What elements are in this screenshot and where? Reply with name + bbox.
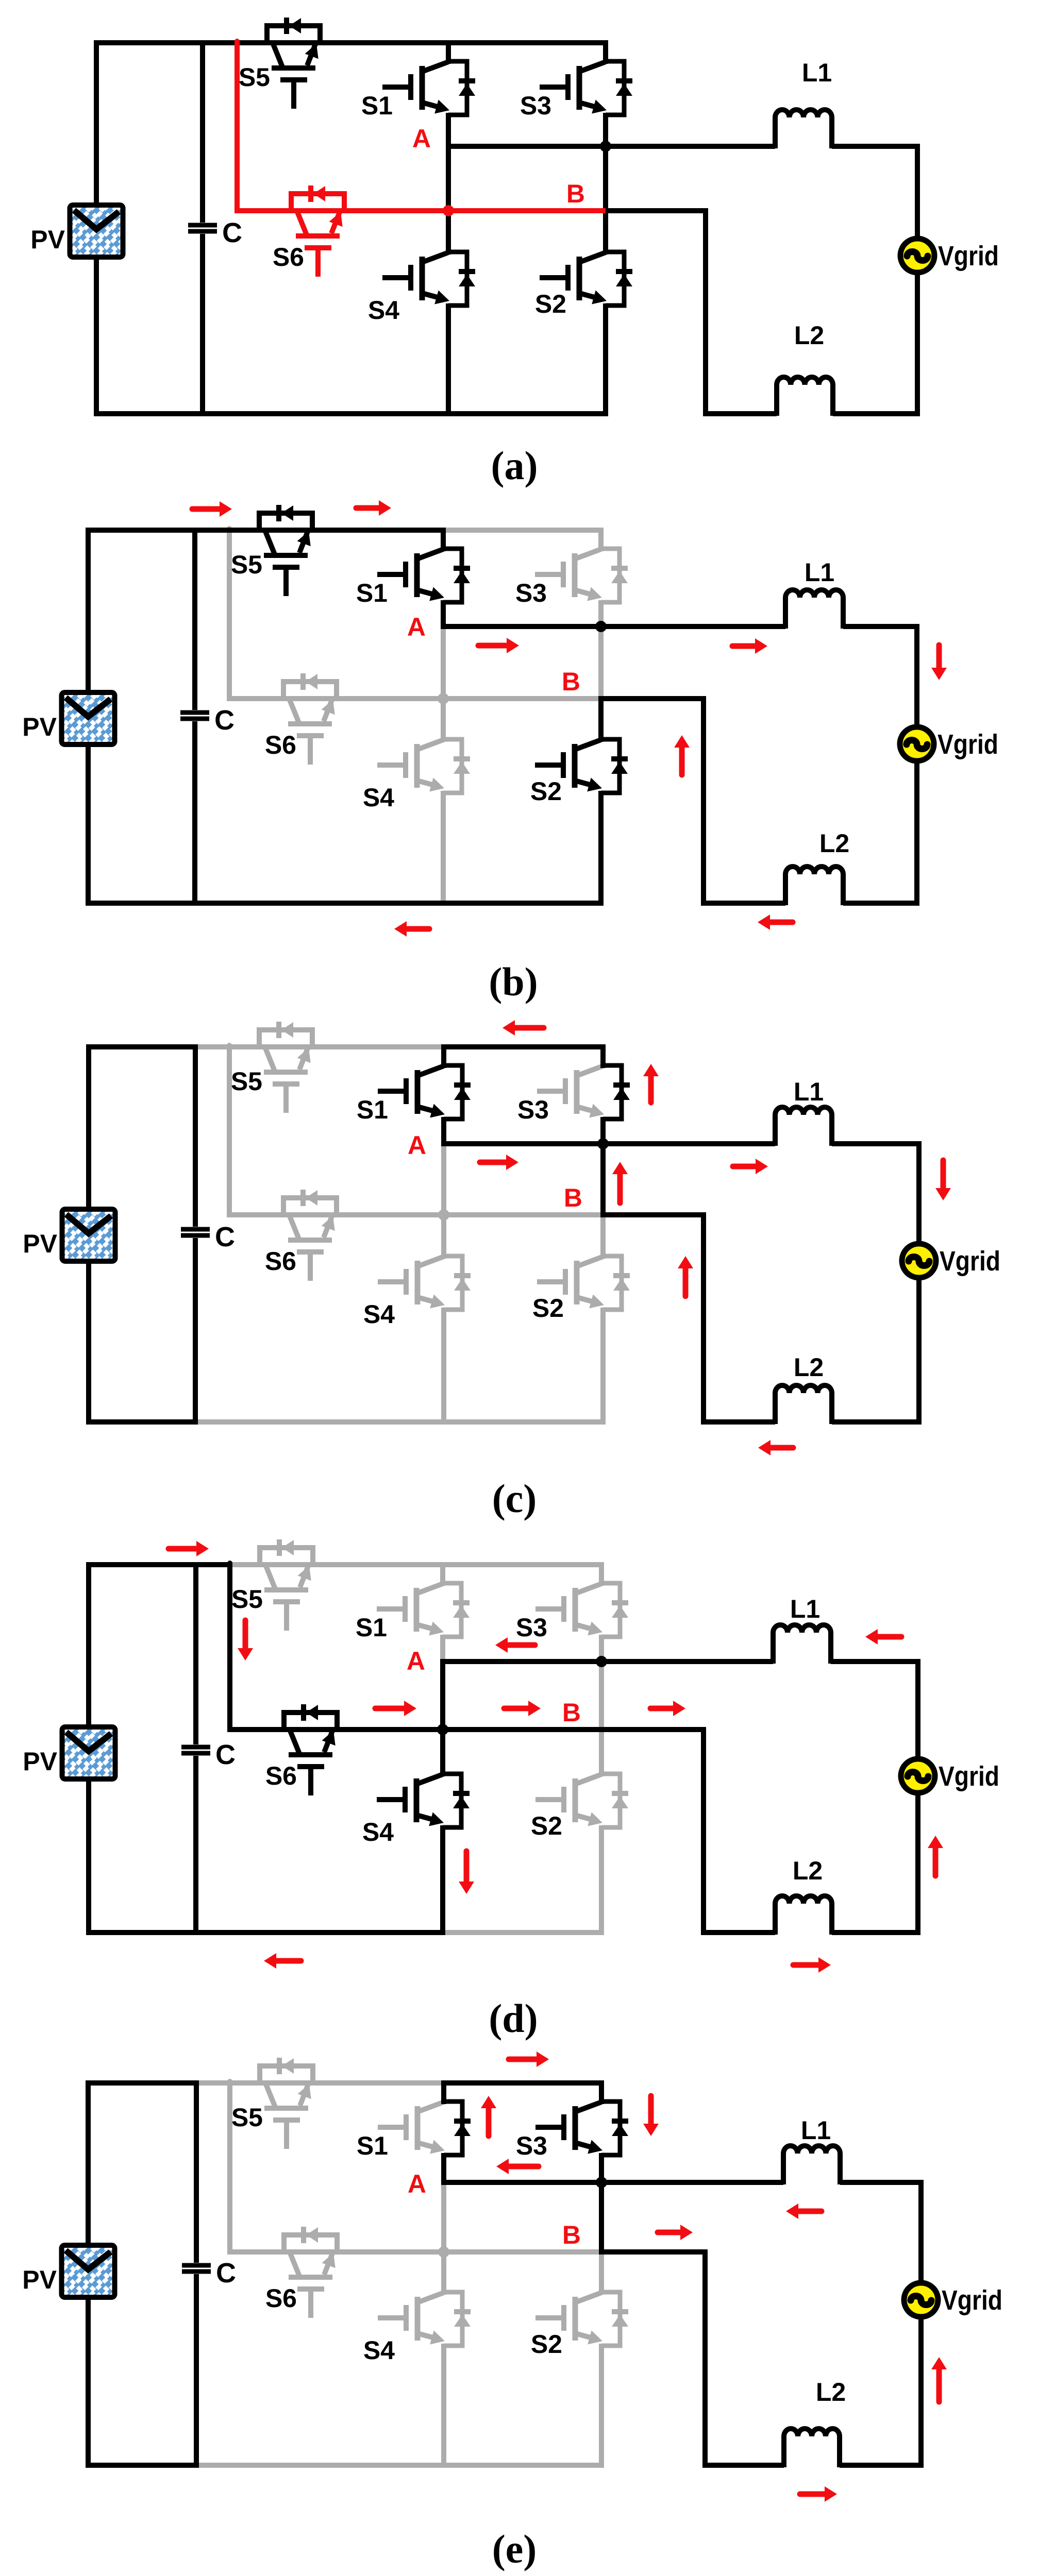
transistor S1 antiparallel diode (d) — [443, 1583, 461, 1637]
solar panel PV (e) — [64, 2247, 113, 2295]
wire: leg2 node B to S2 (b) — [598, 696, 604, 742]
wire: leg2 rail to S3 (d) — [599, 1562, 604, 1586]
current arrow: up into Vgrid (e) — [936, 2367, 942, 2402]
transistor S5 IGBT body (b) — [265, 530, 275, 554]
svg-text:S2: S2 — [531, 1811, 562, 1840]
transistor S3 antiparallel diode (a) — [606, 61, 624, 115]
wire: top rail C to S6 tap (c) — [193, 1044, 232, 1049]
wire: leg1 node A to S4 (a) — [446, 144, 451, 255]
svg-text:(e): (e) — [492, 2527, 537, 2571]
wire: leg1 rail to S1 (b) — [441, 528, 446, 551]
junction S6 output on leg1 (e) — [438, 2246, 449, 2258]
svg-text:L2: L2 — [819, 829, 849, 858]
transistor S4 IGBT body (b) — [417, 740, 443, 750]
wire: node A to L1 (c) — [441, 1141, 775, 1146]
svg-text:PV: PV — [30, 225, 65, 254]
current arrow: node A output (b) — [478, 643, 509, 649]
transistor S2 antiparallel diode (b) — [601, 739, 620, 793]
junction node A on leg2 (b) — [595, 621, 607, 632]
transistor S1 IGBT body (c) — [417, 1066, 444, 1076]
transistor S5 IGBT body (e) — [265, 2083, 275, 2107]
wire: leg2 S3 to node A junction (c) — [600, 1117, 606, 1146]
junction S6 output on leg1 (c) — [438, 1209, 449, 1221]
current arrow: out of L2 (c) — [768, 1445, 793, 1451]
transistor S6 IGBT body (c) — [289, 1215, 299, 1239]
wire: bottom rail leg1 to leg2 (b) — [441, 901, 604, 906]
svg-text:S4: S4 — [363, 2336, 395, 2365]
wire: S6 rail tap to leg1 (c) — [227, 1212, 444, 1217]
wire: bottom rail PV to C (b) — [86, 901, 197, 906]
wire: bottom rail C to leg1 (e) — [194, 2463, 446, 2468]
transistor S5 antiparallel diode (a) — [267, 26, 320, 43]
wire: freewheel link leg1 to leg2 (a) — [448, 208, 606, 213]
wire: PV positive leg (c) — [86, 1044, 91, 1425]
transistor S1 IGBT body (a) — [422, 62, 448, 72]
transistor S2 antiparallel diode (d) — [601, 1774, 620, 1827]
transistor S5 IGBT body (d) — [265, 1565, 275, 1589]
transistor S1 IGBT body (d) — [416, 1584, 443, 1594]
current arrow: out of L2 (b) — [768, 920, 793, 925]
solar panel PV (b) — [64, 694, 113, 742]
wire: node B output leg2 to riser (b) — [598, 696, 706, 701]
svg-text:B: B — [562, 2221, 581, 2249]
current arrow: into L2 (e) — [800, 2492, 827, 2497]
transistor S6 antiparallel diode (c) — [283, 1198, 337, 1215]
current arrow: into S6 tap (d) — [169, 1546, 198, 1552]
wire: S6 tap vertical (b) — [227, 529, 232, 699]
wire: leg1 S1 to node A (c) — [441, 1117, 446, 1146]
current arrow: bottom rail return (d) — [274, 1958, 301, 1964]
inductor L1 (a) — [775, 110, 832, 148]
svg-text:(c): (c) — [492, 1476, 537, 1521]
transistor S5 IGBT body (c) — [265, 1047, 275, 1071]
transistor S1 IGBT body (e) — [417, 2102, 444, 2112]
wire: PV positive leg (d) — [86, 1562, 91, 1935]
wire: leg2 node B to S2 (d) — [599, 1727, 604, 1776]
svg-text:C: C — [215, 1739, 236, 1770]
transistor S5 antiparallel diode (c) — [259, 1030, 312, 1047]
current arrow: out of S6 (d) — [375, 1706, 406, 1711]
AC source Vgrid (d) — [901, 1759, 935, 1793]
svg-text:Vgrid: Vgrid — [937, 729, 998, 760]
wire: top rail PV to C (e) — [86, 2080, 196, 2086]
wire: top rail through S5 to leg1 (d) — [227, 1562, 445, 1567]
svg-text:A: A — [412, 124, 431, 153]
solar panel PV (c) — [64, 1211, 113, 1259]
inductor L2 (e) — [784, 2429, 840, 2467]
junction node A on leg2 (c) — [597, 1138, 609, 1149]
wire: leg2 node B to S2 (a) — [603, 208, 608, 255]
current arrow: up node B riser (c) — [683, 1266, 689, 1296]
svg-text:S6: S6 — [265, 731, 296, 759]
AC source Vgrid (c) — [902, 1244, 936, 1278]
current arrow: into S5 (b) — [192, 506, 222, 512]
current arrow: top freewheel right (e) — [509, 2057, 539, 2062]
wire: leg2 rail to S3 (c) — [600, 1044, 606, 1068]
inductor L2 (b) — [785, 867, 843, 905]
svg-text:S1: S1 — [357, 2131, 388, 2160]
transistor S3 antiparallel diode (c) — [603, 1065, 622, 1119]
wire: top rail PV to C (d) — [86, 1562, 196, 1567]
current arrow: up through S1 diode (e) — [486, 2106, 492, 2136]
wire: leg1 S4 to bottom rail (d) — [440, 1825, 445, 1935]
wire: top rail through S5 to leg1 (a) — [235, 40, 451, 45]
wire: node A to L1 (b) — [441, 624, 785, 629]
svg-text:S3: S3 — [516, 2131, 547, 2160]
transistor S4 antiparallel diode (b) — [443, 739, 462, 793]
transistor S3 IGBT body (c) — [577, 1066, 603, 1076]
current arrow: up leg2 to node A (c) — [617, 1172, 623, 1203]
transistor S3 antiparallel diode (e) — [601, 2102, 620, 2155]
wire: top rail PV to C (b) — [86, 528, 195, 533]
svg-text:S1: S1 — [356, 1613, 387, 1642]
wire: S6 rail tap to leg1 (b) — [227, 696, 443, 701]
current arrow: down into Vgrid (b) — [936, 645, 942, 670]
transistor S1 antiparallel diode (b) — [443, 549, 462, 602]
transistor S5 antiparallel diode (b) — [259, 513, 312, 530]
wire: leg1 S4 to bottom rail (e) — [441, 2344, 446, 2468]
transistor S4 IGBT body (a) — [422, 252, 448, 262]
wire: bottom rail leg1 to leg2 (e) — [441, 2463, 604, 2468]
svg-text:B: B — [562, 1698, 581, 1727]
wire: node B output leg2 to riser (d) — [599, 1727, 706, 1732]
svg-text:S2: S2 — [530, 777, 562, 806]
wire: leg1 rail to S1 (e) — [441, 2080, 446, 2104]
svg-text:S5: S5 — [231, 1067, 262, 1096]
transistor S1 antiparallel diode (e) — [444, 2102, 462, 2155]
wire: bottom rail C to leg1 (b) — [192, 901, 446, 906]
svg-text:C: C — [216, 2258, 236, 2289]
svg-text:S1: S1 — [356, 579, 388, 607]
wire: S6 tap vertical (a) — [235, 41, 240, 211]
svg-text:B: B — [562, 667, 580, 696]
wire: freewheel link leg1 to leg2 (c) — [444, 1212, 603, 1217]
svg-text:S3: S3 — [520, 91, 551, 120]
wire: leg1 node A to S4 (c) — [441, 1141, 446, 1259]
wire: bottom rail leg1 to leg2 (c) — [441, 1419, 606, 1425]
current arrow: down through S4 (d) — [464, 1851, 470, 1884]
junction node A on leg2 (a) — [600, 141, 611, 152]
wire: leg2 S3 to node A junction (d) — [599, 1635, 604, 1664]
transistor S2 antiparallel diode (e) — [601, 2292, 620, 2346]
junction S6 output on leg1 (b) — [438, 693, 449, 704]
wire: leg1 S1 to node A (b) — [441, 600, 446, 629]
svg-text:C: C — [222, 217, 242, 248]
current arrow: down S6 tap (d) — [243, 1620, 248, 1650]
transistor S3 IGBT body (e) — [575, 2102, 601, 2112]
svg-text:A: A — [408, 1131, 426, 1160]
wire: bottom rail C to leg1 (d) — [193, 1930, 445, 1935]
current arrow: top freewheel left (c) — [513, 1025, 544, 1031]
AC source Vgrid (b) — [900, 727, 934, 761]
current arrow: into L1 (c) — [733, 1164, 758, 1170]
svg-text:S4: S4 — [362, 1818, 394, 1846]
svg-text:L2: L2 — [794, 321, 824, 350]
wire: bottom rail leg1 to leg2 (d) — [440, 1930, 604, 1935]
inductor L2 (d) — [775, 1896, 832, 1935]
wire: top rail PV to C (a) — [94, 40, 203, 45]
current arrow: into L2 (d) — [793, 1962, 821, 1968]
svg-text:(b): (b) — [489, 959, 538, 1004]
wire: top rail C to S6 tap (a) — [200, 40, 240, 45]
current arrow: bottom rail return (b) — [405, 926, 429, 932]
junction node A on leg2 (e) — [596, 2177, 607, 2188]
svg-text:S6: S6 — [265, 1761, 297, 1790]
current arrow: node B output (d) — [650, 1706, 675, 1711]
wire: top rail PV to C (c) — [86, 1044, 195, 1049]
svg-text:C: C — [214, 705, 235, 736]
svg-text:L1: L1 — [794, 1077, 824, 1106]
transistor S6 IGBT body (d) — [290, 1730, 299, 1754]
wire: node B output leg2 to riser (a) — [603, 208, 708, 213]
wire: Vgrid to L2 (c) — [832, 1278, 919, 1422]
wire: leg1 rail to S1 (d) — [440, 1562, 445, 1586]
wire: top rail C to S6 tap (d) — [193, 1562, 232, 1567]
svg-text:S5: S5 — [239, 63, 270, 92]
svg-text:S3: S3 — [515, 579, 547, 607]
transistor S6 IGBT body (e) — [290, 2252, 299, 2276]
svg-text:L2: L2 — [793, 1856, 823, 1885]
transistor S1 IGBT body (b) — [417, 549, 443, 559]
transistor S4 antiparallel diode (a) — [448, 252, 467, 306]
transistor S5 antiparallel diode (e) — [260, 2066, 313, 2083]
wire: Vgrid to L2 (e) — [840, 2317, 921, 2465]
wire: leg2 node A to node B (a) — [603, 144, 608, 213]
svg-text:L1: L1 — [802, 58, 832, 87]
wire: top rail leg1 to leg2 (a) — [446, 40, 608, 45]
wire: leg1 node A to S4 (e) — [441, 2180, 446, 2295]
transistor S2 IGBT body (a) — [579, 252, 606, 262]
svg-text:Vgrid: Vgrid — [940, 1246, 1000, 1277]
current arrow: into L1 (b) — [732, 643, 757, 649]
transistor S4 IGBT body (c) — [417, 1257, 444, 1266]
wire: bottom rail PV to C (a) — [94, 411, 205, 416]
wire: freewheel link leg1 to leg2 (d) — [443, 1727, 601, 1732]
wire: leg1 S4 to bottom rail (c) — [441, 1308, 446, 1425]
wire: leg1 S1 to node A (a) — [446, 113, 451, 149]
inductor L2 (c) — [775, 1385, 832, 1424]
svg-text:S3: S3 — [517, 1095, 549, 1124]
svg-text:(d): (d) — [489, 1996, 538, 2041]
wire: L2 to node B riser (b) — [704, 696, 785, 903]
svg-text:L2: L2 — [816, 2378, 846, 2406]
svg-text:A: A — [407, 1647, 425, 1675]
transistor S2 IGBT body (b) — [575, 740, 601, 750]
inductor L1 (e) — [783, 2146, 840, 2184]
wire: leg2 S2 to bottom rail (a) — [603, 303, 608, 416]
wire: leg2 S2 to bottom rail (d) — [599, 1825, 604, 1935]
transistor S5 antiparallel diode (d) — [260, 1548, 313, 1565]
svg-text:S4: S4 — [368, 296, 399, 325]
wire: bottom rail PV to C (d) — [86, 1930, 198, 1935]
wire: node A to L1 (a) — [446, 144, 775, 149]
transistor S3 antiparallel diode (d) — [601, 1583, 620, 1637]
solar panel PV (d) — [64, 1729, 113, 1777]
svg-text:PV: PV — [23, 1747, 57, 1776]
wire: leg1 S1 to node A (e) — [441, 2153, 446, 2185]
wire: freewheel link leg1 to leg2 (b) — [443, 696, 601, 701]
AC source Vgrid (e) — [904, 2283, 938, 2317]
wire: leg2 rail to S3 (e) — [599, 2080, 604, 2104]
wire: L1 to Vgrid (b) — [843, 626, 917, 727]
wire: node A to L1 (d) — [440, 1659, 773, 1664]
svg-text:S4: S4 — [363, 783, 394, 812]
svg-text:S5: S5 — [231, 550, 262, 579]
svg-text:L2: L2 — [794, 1353, 824, 1382]
wire: leg2 rail to S3 (b) — [598, 528, 604, 551]
transistor S2 IGBT body (c) — [577, 1257, 603, 1266]
inductor L1 (b) — [785, 590, 843, 629]
svg-text:S5: S5 — [231, 1585, 263, 1614]
transistor S3 antiparallel diode (b) — [601, 549, 620, 602]
wire: node B output leg2 to riser (e) — [599, 2249, 708, 2255]
current arrow: left along node A wire (d) — [506, 1642, 535, 1648]
svg-text:S1: S1 — [361, 91, 393, 120]
junction node A on leg2 (d) — [596, 1656, 607, 1667]
svg-text:S6: S6 — [265, 1247, 296, 1276]
current arrow: node B output (e) — [658, 2230, 682, 2235]
wire: L1 to Vgrid (c) — [832, 1144, 919, 1244]
wire: leg1 S4 to bottom rail (b) — [441, 791, 446, 906]
wire: top rail through S5 to leg1 (e) — [227, 2080, 446, 2086]
transistor S6 IGBT body (a) — [297, 211, 307, 235]
svg-text:S6: S6 — [273, 243, 304, 272]
inductor L2 (a) — [777, 377, 833, 416]
svg-text:C: C — [215, 1222, 235, 1252]
svg-text:S5: S5 — [231, 2103, 263, 2132]
transistor S4 antiparallel diode (e) — [444, 2292, 462, 2346]
wire: Vgrid to L2 (a) — [833, 273, 917, 414]
wire: leg2 S3 to node A junction (b) — [598, 600, 604, 629]
wire: top rail leg1 to leg2 (c) — [441, 1044, 606, 1049]
transistor S4 IGBT body (e) — [417, 2293, 444, 2302]
wire: leg2 S2 to bottom rail (c) — [600, 1308, 606, 1425]
wire: L2 to node B riser (c) — [704, 1212, 775, 1422]
inductor L1 (d) — [773, 1625, 831, 1664]
transistor S3 IGBT body (d) — [575, 1584, 601, 1594]
capacitor C (d) — [193, 1562, 198, 1744]
svg-text:S6: S6 — [265, 2284, 297, 2313]
transistor S2 IGBT body (d) — [575, 1774, 601, 1784]
wire: bottom rail leg1 to leg2 (a) — [446, 411, 608, 416]
current arrow: left along node A wire (e) — [507, 2164, 539, 2170]
wire: PV positive leg (e) — [86, 2080, 91, 2468]
wire: L2 to node B riser (e) — [705, 2249, 784, 2465]
transistor S2 IGBT body (e) — [575, 2293, 601, 2302]
wire: top rail leg1 to leg2 (d) — [440, 1562, 604, 1567]
current arrow: node A output (c) — [480, 1160, 508, 1165]
wire: top rail leg1 to leg2 (b) — [441, 528, 604, 533]
current arrow: down through S3 (e) — [648, 2096, 654, 2126]
svg-text:(a): (a) — [491, 443, 538, 488]
wire: S6 rail tap to leg1 (a) — [235, 208, 448, 213]
wire: leg2 S2 to bottom rail (e) — [599, 2344, 604, 2468]
wire: S6 rail tap to leg1 (e) — [227, 2249, 444, 2255]
wire: S6 tap vertical (e) — [227, 2081, 232, 2252]
inductor L1 (c) — [775, 1107, 832, 1146]
svg-text:S1: S1 — [357, 1095, 388, 1124]
capacitor C (a) — [200, 40, 205, 223]
svg-text:B: B — [564, 1183, 582, 1212]
wire: Vgrid to L2 (d) — [832, 1793, 918, 1933]
wire: PV positive leg (a) — [94, 40, 99, 416]
wire: leg2 S3 to node A junction (e) — [599, 2153, 604, 2185]
transistor S6 antiparallel diode (d) — [284, 1713, 337, 1730]
wire: bottom rail C to leg1 (c) — [193, 1419, 446, 1425]
wire: Vgrid to L2 (b) — [843, 761, 917, 903]
transistor S2 antiparallel diode (c) — [603, 1256, 622, 1310]
wire: bottom rail PV to C (c) — [86, 1419, 198, 1425]
wire: node B output leg2 to riser (c) — [600, 1212, 706, 1217]
transistor S4 antiparallel diode (c) — [444, 1256, 462, 1310]
current arrow: up through S3 diode (c) — [648, 1074, 654, 1103]
wire: leg2 S3 to node A junction (a) — [603, 113, 608, 149]
solar panel PV (a) — [72, 207, 121, 255]
wire: leg1 S1 to node A (d) — [440, 1635, 445, 1664]
wire: leg2 node A to node B (c) — [600, 1141, 606, 1217]
wire: leg2 node B to S2 (c) — [600, 1212, 606, 1259]
current arrow: up into Vgrid (d) — [933, 1846, 939, 1876]
capacitor C (c) — [193, 1044, 198, 1227]
transistor S1 antiparallel diode (c) — [444, 1065, 462, 1119]
wire: top rail through S5 to leg1 (b) — [227, 528, 446, 533]
current arrow: out of L1 (e) — [796, 2209, 822, 2214]
wire: top rail C to S6 tap (e) — [194, 2080, 232, 2086]
wire: leg2 rail to S3 (a) — [603, 40, 608, 64]
wire: leg1 rail to S1 (a) — [446, 40, 451, 64]
wire: leg2 node A to node B (e) — [599, 2180, 604, 2255]
wire: bottom rail PV to C (e) — [86, 2463, 199, 2468]
current arrow: up node B riser (b) — [679, 745, 685, 775]
wire: top rail through S5 to leg1 (c) — [227, 1044, 446, 1049]
svg-text:S4: S4 — [363, 1300, 395, 1329]
wire: freewheel link leg1 to leg2 (e) — [444, 2249, 601, 2255]
junction S6 output on leg1 (a) — [443, 205, 454, 216]
wire: S6 tap vertical (c) — [227, 1045, 232, 1215]
svg-text:PV: PV — [22, 2265, 57, 2294]
wire: leg1 S4 to bottom rail (a) — [446, 303, 451, 416]
transistor S4 IGBT body (d) — [416, 1774, 443, 1784]
svg-text:A: A — [408, 2170, 426, 2198]
wire: L1 to Vgrid (d) — [831, 1662, 918, 1759]
svg-text:PV: PV — [22, 713, 57, 741]
transistor S3 IGBT body (b) — [575, 549, 601, 559]
wire: leg1 node A to S4 (d) — [440, 1659, 445, 1776]
junction S6 output on leg1 (d) — [437, 1724, 448, 1735]
svg-text:L1: L1 — [805, 558, 834, 587]
svg-text:Vgrid: Vgrid — [939, 1761, 999, 1792]
wire: leg2 S2 to bottom rail (b) — [598, 791, 604, 906]
wire: L1 to Vgrid (a) — [832, 146, 917, 239]
current arrow: out of L1 (d) — [876, 1634, 901, 1640]
transistor S5 IGBT body (a) — [273, 43, 282, 67]
wire: S6 rail tap to leg1 (d) — [227, 1727, 443, 1732]
transistor S6 antiparallel diode (a) — [291, 194, 344, 211]
current arrow: after S5 (b) — [356, 505, 381, 511]
transistor S6 antiparallel diode (e) — [284, 2235, 337, 2252]
wire: leg2 node A to node B (b) — [598, 624, 604, 701]
wire: L2 to node B riser (a) — [706, 208, 777, 414]
transistor S6 IGBT body (b) — [289, 699, 299, 723]
svg-text:S2: S2 — [535, 290, 566, 318]
wire: leg2 node A to node B (d) — [599, 1659, 604, 1732]
svg-text:B: B — [566, 179, 585, 208]
wire: L2 to node B riser (d) — [704, 1727, 775, 1933]
svg-text:L1: L1 — [790, 1595, 820, 1623]
wire: S6 tap vertical (d) — [227, 1563, 232, 1730]
wire: leg1 rail to S1 (c) — [441, 1044, 446, 1068]
transistor S6 antiparallel diode (b) — [283, 682, 337, 699]
